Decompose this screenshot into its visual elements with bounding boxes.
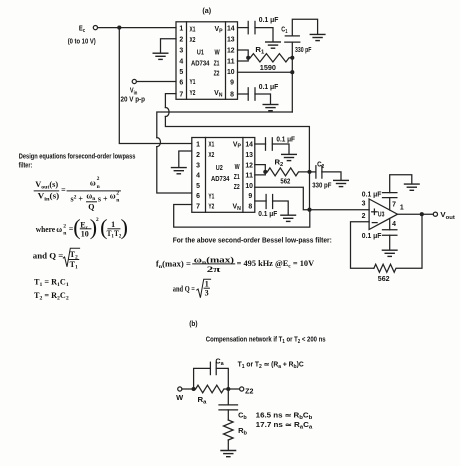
formula and Q [33, 248, 80, 270]
svg-text:W: W [176, 395, 184, 402]
wire Rb to ground [227, 440, 229, 450]
capacitor 0.1uF at U3 pin 4 [383, 229, 397, 231]
svg-text:2: 2 [116, 191, 119, 197]
svg-text:Cb: Cb [238, 412, 247, 421]
svg-text:0.1 μF: 0.1 μF [258, 211, 277, 218]
node W/Z1 U2 [263, 170, 267, 174]
svg-text:T1: T1 [70, 260, 78, 271]
svg-text:For the above second-order Bes: For the above second-order Bessel low-pa… [173, 238, 332, 245]
node filter output [307, 208, 311, 212]
svg-text:13: 13 [227, 37, 235, 44]
wire node to Z2 terminal [228, 388, 239, 390]
terminal Ec [93, 26, 97, 30]
svg-text:1: 1 [179, 26, 183, 33]
svg-text:W: W [215, 50, 221, 57]
resistor Rb [224, 420, 234, 440]
svg-text:10: 10 [245, 183, 253, 190]
node Ec junction [117, 26, 121, 30]
svg-text:330 pF: 330 pF [295, 47, 311, 54]
op-amp U1 (AD734) box [176, 22, 238, 100]
svg-text:ω: ω [110, 191, 116, 200]
wire Ca to node [216, 368, 228, 389]
svg-text:2: 2 [179, 37, 183, 44]
wire U2 pin 2 to ground [179, 151, 192, 167]
svg-text:W: W [235, 164, 240, 171]
svg-text:1: 1 [196, 142, 200, 149]
wire Vin to U1 pin 6 [137, 81, 176, 83]
wire U1 pin 7 (Y2) to second node, with hop [165, 94, 176, 108]
svg-text:11: 11 [245, 173, 253, 180]
svg-text:Rb: Rb [238, 428, 247, 437]
svg-text:Z1: Z1 [234, 174, 240, 181]
wire U2 pin 10 (Z2) to output node [255, 187, 310, 209]
wire cap to ground [390, 175, 412, 193]
capacitor 0.1uF at U1 VN [247, 88, 249, 100]
svg-text:s +: s + [98, 194, 108, 203]
svg-text:ωn: ωn [86, 191, 96, 201]
svg-text:3: 3 [205, 288, 209, 297]
svg-text:2: 2 [362, 213, 366, 220]
svg-text:1: 1 [205, 280, 209, 289]
ground U2 X2 [171, 168, 187, 174]
svg-text:17.7 ns ≃ RaCa: 17.7 ns ≃ RaCa [256, 422, 313, 431]
svg-text:12: 12 [227, 47, 235, 54]
formula and Q bessel [173, 279, 211, 298]
svg-text:0.1 μF: 0.1 μF [362, 233, 382, 240]
svg-text:0.1 μF: 0.1 μF [276, 137, 295, 144]
formula Vout/Vin [34, 176, 121, 212]
wire cap to ground [273, 201, 289, 214]
svg-text:0.1 μF: 0.1 μF [259, 84, 279, 91]
wire node down to Cb [227, 389, 229, 405]
svg-text:fn(max) =: fn(max) = [156, 259, 191, 270]
svg-text:9: 9 [248, 193, 252, 200]
ground U2 VN cap [280, 215, 296, 221]
svg-text:and Q =: and Q = [173, 284, 195, 293]
svg-text:U2: U2 [216, 165, 223, 172]
svg-text:C2: C2 [317, 162, 324, 171]
node b2 [226, 387, 230, 391]
svg-text:1: 1 [400, 205, 404, 212]
wire C1 bottom through nodes down [291, 42, 293, 112]
wire U1 pin 11 (Z1) to node [238, 58, 249, 61]
svg-text:n: n [97, 184, 101, 190]
svg-text:10: 10 [227, 69, 235, 76]
svg-text:11: 11 [227, 58, 235, 65]
wire Ec down to U2 pin 1 [119, 28, 192, 144]
resistor Ra [196, 385, 229, 393]
terminal Vin [132, 79, 136, 83]
wire U1 pin 12 (W) to node [238, 50, 249, 58]
op-amp U3 [369, 199, 397, 230]
svg-text:Vin(s): Vin(s) [38, 192, 60, 203]
node output [420, 212, 424, 216]
svg-text:(a): (a) [202, 8, 211, 15]
svg-text:X2: X2 [190, 37, 196, 44]
wire U3 pin 4 stub [389, 219, 391, 230]
svg-text:X1: X1 [208, 142, 214, 149]
svg-text:Z2: Z2 [214, 71, 220, 78]
svg-text:Y2: Y2 [190, 90, 196, 97]
ground U3 bottom cap [382, 250, 398, 256]
wire node to U2 Y1 with hop [157, 112, 292, 138]
svg-text:Z2: Z2 [234, 184, 240, 191]
svg-text:14: 14 [227, 26, 235, 33]
ground U3 top cap [404, 184, 420, 190]
svg-text:8: 8 [248, 204, 252, 211]
svg-text:U3: U3 [378, 211, 385, 218]
svg-text:n: n [116, 197, 120, 203]
svg-text:14: 14 [245, 142, 253, 149]
node R2/C2 [307, 170, 311, 174]
svg-text:ω: ω [90, 178, 96, 187]
svg-text:s2 +: s2 + [71, 194, 84, 203]
svg-text:16.5 ns ≃ RbCb: 16.5 ns ≃ RbCb [256, 412, 313, 421]
svg-text:Ra: Ra [198, 397, 207, 406]
capacitor 0.1uF at U2 VP [265, 138, 267, 150]
svg-text:12: 12 [245, 162, 253, 169]
wire Cb to Rb [227, 410, 229, 420]
wire W to node [182, 388, 194, 390]
svg-text:U1: U1 [197, 50, 204, 57]
svg-text:0.1 μF: 0.1 μF [362, 192, 382, 199]
svg-text:VP: VP [215, 26, 224, 34]
svg-text:Vin: Vin [130, 88, 138, 97]
svg-text:7: 7 [392, 202, 396, 209]
svg-text:1: 1 [111, 220, 115, 229]
svg-text:Y1: Y1 [190, 79, 196, 86]
svg-text:): ) [121, 214, 128, 239]
minus symbol U3 [372, 222, 377, 224]
svg-text:2: 2 [96, 217, 99, 223]
svg-text:VN: VN [214, 90, 223, 98]
wire U1 pin 10 (Z2) to node [238, 71, 293, 73]
svg-text:= 495 kHz @Ec = 10V: = 495 kHz @Ec = 10V [237, 259, 315, 270]
node b1 [192, 387, 196, 391]
svg-text:4: 4 [392, 221, 396, 228]
svg-text:Vout(s): Vout(s) [35, 180, 58, 191]
svg-text:3: 3 [196, 162, 200, 169]
node R1/C1 [290, 56, 294, 60]
node Z2 [290, 70, 294, 74]
capacitor C2 330pF [315, 166, 317, 178]
wire U2 pin 7 (Y2) loop to output node [174, 205, 310, 228]
svg-text:330 pF: 330 pF [312, 182, 331, 189]
ground C1 [310, 34, 326, 40]
wire U2 pin 11 (Z1) to node [255, 172, 265, 175]
svg-text:2: 2 [196, 152, 200, 159]
svg-text:562: 562 [378, 276, 390, 283]
svg-text:6: 6 [196, 193, 200, 200]
svg-text:5: 5 [196, 183, 200, 190]
svg-text:8: 8 [230, 91, 234, 98]
capacitor C1 330pF [285, 35, 299, 37]
svg-text:3: 3 [362, 200, 366, 207]
svg-text:C1: C1 [281, 27, 287, 36]
resistor 562 feedback [374, 214, 422, 272]
ground C2 [333, 180, 349, 186]
wire cap to ground [255, 94, 271, 104]
wire U1 pin 8 to 0.1uF [238, 93, 249, 95]
svg-text:(b): (b) [189, 321, 197, 328]
svg-text:2π: 2π [207, 265, 221, 274]
wire U2 pin 8 to 0.1uF [255, 200, 266, 202]
plus symbol U3 [372, 211, 377, 213]
wire Ec to U1 pin 1 [98, 27, 176, 29]
capacitor 0.1uF at U3 pin 7 [383, 192, 397, 194]
svg-text:6: 6 [179, 80, 183, 87]
wire U1 pin 14 to 0.1uF [238, 27, 249, 29]
svg-text:9: 9 [230, 80, 234, 87]
wire C2 to ground [322, 172, 341, 180]
terminal Vout [433, 212, 437, 216]
wire cap to ground [389, 235, 391, 249]
capacitor 0.1uF at U2 VN [265, 195, 267, 209]
svg-text:T2: T2 [70, 250, 78, 261]
svg-text:4: 4 [196, 173, 200, 180]
formula where wn [36, 214, 128, 239]
formula fn(max) [156, 256, 314, 274]
svg-text:X1: X1 [190, 26, 196, 33]
capacitor Cb [219, 404, 238, 406]
svg-text:R2: R2 [275, 159, 284, 168]
svg-text:Y2: Y2 [208, 204, 214, 211]
svg-text:Ec: Ec [79, 25, 85, 34]
capacitor 0.1uF at U1 VP [247, 21, 249, 33]
svg-text:Z2: Z2 [245, 388, 253, 395]
svg-text:0.1 μF: 0.1 μF [259, 17, 279, 24]
svg-text:T2 = R2C2: T2 = R2C2 [34, 291, 69, 302]
svg-text:T1 or T2 ≃ (Ra + Rb)C: T1 or T2 ≃ (Ra + Rb)C [238, 362, 304, 371]
svg-text:=: = [61, 185, 66, 194]
svg-text:Z1: Z1 [214, 60, 220, 67]
wire cap to ground [255, 28, 273, 42]
svg-text:13: 13 [245, 152, 253, 159]
svg-text:3: 3 [179, 47, 183, 54]
svg-text:n: n [63, 231, 67, 237]
svg-text:X2: X2 [208, 152, 214, 159]
svg-text:and Q =: and Q = [33, 252, 64, 261]
ground U1 VN cap [263, 105, 279, 111]
ground b [220, 451, 236, 457]
svg-text:Compensation network if T1 or: Compensation network if T1 or T2 < 200 n… [206, 337, 326, 346]
svg-text:VN: VN [233, 204, 242, 212]
wire U3 pin 7 stub [389, 198, 391, 210]
wire node to U3 + input [310, 209, 370, 211]
svg-text:Design equations forsecond-ord: Design equations forsecond-order lowpass [19, 154, 136, 161]
wire C1 top to ground [292, 19, 317, 36]
svg-text:Y1: Y1 [208, 193, 214, 200]
svg-text:562: 562 [280, 178, 290, 185]
svg-text:20 V p-p: 20 V p-p [121, 97, 146, 104]
terminal Z2 [240, 387, 244, 391]
wire U3 output [398, 213, 434, 215]
capacitor Ca [209, 362, 211, 374]
ground U2 VP cap [281, 154, 297, 160]
wire node vertical [309, 172, 311, 210]
svg-text:AD734: AD734 [191, 60, 210, 67]
wire node to C2 [310, 171, 316, 173]
terminal W [178, 387, 182, 391]
resistor R1 [250, 54, 292, 62]
svg-text:filter:: filter: [19, 163, 33, 170]
svg-text:T1 = R1C1: T1 = R1C1 [34, 277, 69, 288]
svg-text:2: 2 [97, 176, 100, 182]
wire U3 feedback loop [351, 222, 374, 269]
node W/Z1 [246, 56, 250, 60]
svg-text:T1T2: T1T2 [107, 229, 122, 240]
svg-text:10: 10 [81, 230, 89, 239]
wire U2 pin 12 (W) to node [255, 165, 265, 172]
wire U1 pin 2 to ground [161, 39, 177, 53]
wire cap to ground [272, 144, 289, 154]
svg-text:Q: Q [88, 203, 94, 212]
wire Ca branch [194, 368, 211, 389]
ground U1 X2 [153, 53, 169, 59]
svg-text:1590: 1590 [260, 65, 276, 72]
resistor R2 [267, 168, 309, 176]
svg-text:R1: R1 [255, 47, 264, 56]
svg-text:2: 2 [63, 223, 66, 229]
wire U2 pin 14 to 0.1uF [255, 143, 266, 145]
svg-text:VP: VP [233, 141, 242, 149]
svg-text:4: 4 [179, 58, 183, 65]
svg-text:AD734: AD734 [211, 176, 230, 183]
ground U1 VP cap [265, 42, 281, 48]
svg-text:(0 to 10 V): (0 to 10 V) [68, 39, 96, 46]
op-amp U2 (AD734) box [192, 138, 255, 213]
svg-text:7: 7 [179, 91, 183, 98]
svg-text:where: where [36, 225, 56, 234]
svg-text:7: 7 [196, 204, 200, 211]
svg-text:Vout: Vout [440, 212, 455, 221]
svg-text:ω: ω [56, 225, 62, 234]
svg-text:5: 5 [179, 69, 183, 76]
